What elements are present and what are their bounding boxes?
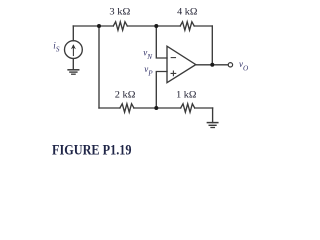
wire inverting input from top rail — [156, 26, 167, 58]
wire op-amp output — [196, 64, 228, 66]
ground (right) bar2 — [209, 124, 216, 126]
op-amp plus sign — [171, 71, 176, 76]
junction node output — [210, 63, 214, 67]
wire left vertical branch — [98, 26, 100, 108]
svg-text:1 kΩ: 1 kΩ — [176, 90, 197, 100]
wire feedback right vertical — [211, 26, 213, 65]
wire current source bottom — [72, 59, 74, 70]
wire top rail middle segment — [127, 25, 180, 27]
ground (right) bar1 — [207, 122, 217, 124]
wire ground stub right — [212, 108, 214, 123]
current source circle — [65, 41, 83, 59]
svg-text:vP: vP — [144, 64, 153, 77]
wire bottom rail left segment — [99, 107, 120, 109]
wire top rail right segment — [194, 25, 212, 27]
junction node top-left — [97, 24, 101, 28]
wire bottom rail right segment — [195, 107, 213, 109]
resistor 3 kOhm body — [113, 22, 127, 30]
output terminal circle — [228, 63, 232, 67]
wire current source top — [72, 26, 74, 41]
wire noninverting input from bottom rail — [156, 72, 167, 109]
op-amp minus sign — [171, 57, 175, 59]
svg-text:vN: vN — [143, 47, 153, 61]
svg-text:3 kΩ: 3 kΩ — [109, 7, 130, 17]
op-amp U1 triangle — [167, 46, 196, 82]
current source arrow head — [71, 44, 76, 49]
current source arrow shaft — [72, 46, 74, 56]
svg-text:2 kΩ: 2 kΩ — [115, 90, 136, 100]
ground (source) bar3 — [72, 73, 75, 75]
resistor 2 kOhm body — [120, 104, 134, 112]
wire top rail left segment — [73, 25, 113, 27]
resistor 1 kOhm body — [181, 104, 195, 112]
wire bottom rail middle segment — [134, 107, 181, 109]
ground (right) bar3 — [211, 127, 214, 129]
junction node vP — [154, 106, 158, 110]
ground (source) bar1 — [68, 69, 79, 71]
ground (source) bar2 — [70, 71, 77, 73]
resistor 4 kOhm body — [180, 22, 194, 30]
svg-text:iS: iS — [53, 41, 60, 54]
svg-text:vO: vO — [239, 59, 249, 72]
svg-text:FIGURE P1.19: FIGURE P1.19 — [52, 143, 132, 159]
junction node vN — [154, 24, 158, 28]
svg-text:4 kΩ: 4 kΩ — [177, 6, 198, 16]
